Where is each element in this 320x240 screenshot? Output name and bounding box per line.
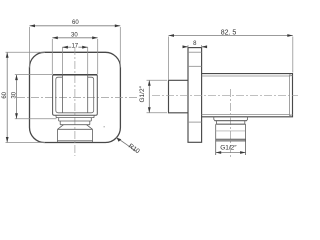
front view vertical centerline [74,47,76,156]
dim G1/2 left ext top [147,79,168,81]
arrow G1/2 bottom right [240,151,246,154]
dim 60 left line [6,52,8,142]
arrow 30 left bottom [15,113,18,119]
front plate channel left line [61,75,63,113]
dim 8 line with outside tails [183,46,207,48]
arrow 60 left top [6,52,9,58]
arrow G1/2 bottom left [216,151,222,154]
dim 30 top ext left [51,39,53,74]
side body end chamfer [290,75,293,116]
dim 17 ext right [87,47,89,74]
dim 82.5 ext left / stub left edge [168,37,170,81]
arrow 82.5 left [169,34,175,37]
dim 30 left ext top [15,74,52,76]
svg-text:60: 60 [2,91,8,98]
arrow 17 left [62,46,68,49]
side view horizontal centerline [152,94,298,96]
dim 8 ext lines [188,45,202,47]
front nozzle nut body [58,129,93,142]
arrow R10 at corner [117,138,122,142]
side flange inner line b [188,65,202,67]
side wall stub [169,80,189,113]
dim 82.5 ext right [292,37,294,73]
dim G1/2 left ext bottom [147,112,168,114]
side flange inner line c [188,121,202,123]
svg-text:30: 30 [71,32,78,38]
front nozzle collar [59,118,92,121]
side body outline [202,74,293,117]
arrow G1/2 left bottom [148,107,151,113]
dim 82.5 line [169,35,293,37]
dim 60 top ext right [119,27,121,68]
front view horizontal centerline [17,97,138,99]
side body bottom inner line [202,114,291,116]
dim 30 top ext right [97,39,99,74]
front plate outer rect [53,75,98,116]
side nozzle ring [215,121,247,125]
front nozzle nut chamfer [58,125,93,130]
svg-text:G1/2″: G1/2″ [139,85,146,102]
arrow 30 top left [52,36,58,39]
arrow 30 left top [15,75,18,81]
arrow 8 right outside [202,45,208,48]
arrow 60 left bottom [6,137,9,143]
arrow G1/2 left top [148,80,151,86]
svg-text:82. 5: 82. 5 [221,30,237,37]
dim 17 ext left [61,47,63,74]
dim 30 left line [16,75,18,119]
dim 30 top line [52,37,97,39]
dim 60 top line [30,25,121,27]
arrow 8 left outside [183,45,189,48]
side view flange [188,48,202,143]
arrow 60 top left [30,24,36,27]
side body top inner line [202,75,291,77]
R10 leader line [117,138,137,152]
speck detail [104,126,105,128]
side nozzle vertical centerline [230,89,232,158]
front plate channel right line [87,75,89,113]
arrow 82.5 right [287,34,293,37]
dim 17 top line [62,46,87,48]
front plate inner rect [56,77,94,113]
side nozzle cylinder [216,124,246,155]
dim 60 left ext top [6,51,46,53]
front plate top dark edge [53,74,98,76]
front nozzle ring [60,121,90,125]
side nozzle flange [214,117,248,121]
svg-text:30: 30 [12,91,18,98]
dim 60 top ext left [29,27,31,68]
arrow 60 top right [115,24,121,27]
svg-text:17: 17 [71,43,78,49]
side flange inner line a [188,51,202,53]
arrow 30 top right [92,36,98,39]
dim 30 left ext bottom [15,118,57,120]
front nozzle rim [56,115,94,117]
arrow 17 right [82,46,88,49]
side nozzle thread line [216,130,246,132]
svg-text:G1/2″: G1/2″ [220,145,237,152]
dim 60 left ext bottom [6,142,46,144]
front view outer rounded square [30,52,121,142]
side nozzle ring lines [216,139,246,141]
dim G1/2 left line [148,80,150,113]
svg-text:60: 60 [72,20,79,26]
dim G1/2 bottom line [216,152,246,154]
